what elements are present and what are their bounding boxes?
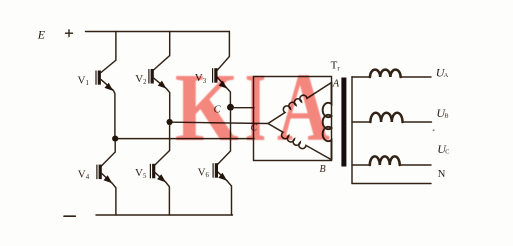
delta winding side C-B with coil bbox=[268, 124, 331, 160]
svg-text:A: A bbox=[332, 78, 340, 89]
positive terminal + bbox=[66, 30, 73, 37]
secondary bus wire bbox=[351, 77, 353, 184]
svg-text:B: B bbox=[444, 113, 448, 120]
positive DC rail wire bbox=[86, 31, 230, 33]
negative DC rail wire bbox=[96, 214, 233, 216]
label V3 bbox=[195, 72, 207, 85]
wire V6 emitter to negative rail bbox=[227, 181, 232, 215]
label V5 bbox=[135, 167, 147, 180]
wire rail to V1 collector bbox=[101, 32, 116, 73]
transformer label Tr bbox=[331, 59, 341, 72]
transistor V5 bbox=[150, 164, 166, 182]
wire V5 emitter to negative rail bbox=[166, 182, 170, 215]
transformer core bbox=[341, 78, 346, 167]
node label C bbox=[214, 104, 222, 115]
secondary winding A coil bbox=[370, 70, 401, 77]
output label UA bbox=[436, 65, 449, 79]
source label E bbox=[37, 28, 46, 42]
svg-text:I: I bbox=[245, 54, 266, 161]
delta winding side A-C with coil bbox=[268, 83, 332, 124]
label V2 bbox=[135, 73, 147, 86]
svg-text:B: B bbox=[320, 164, 326, 175]
junction node leg2 bbox=[167, 119, 173, 125]
wire node leg2 to delta vertex C bbox=[173, 122, 268, 123]
vertex label B bbox=[320, 164, 326, 175]
secondary winding C coil bbox=[370, 156, 400, 165]
svg-text:A: A bbox=[444, 72, 449, 79]
wire node leg1 to V4 bbox=[102, 142, 116, 166]
svg-text:C: C bbox=[445, 149, 449, 156]
svg-text:N: N bbox=[438, 169, 446, 180]
negative terminal - bbox=[64, 215, 75, 217]
output label UB bbox=[436, 106, 448, 120]
vertex label A bbox=[332, 78, 340, 89]
transistor V4 bbox=[96, 165, 112, 184]
wire rail to V2 collector bbox=[154, 32, 170, 71]
wire rail to V3 collector bbox=[217, 32, 229, 71]
wire V1 emitter to node leg1 bbox=[113, 90, 115, 138]
secondary winding B coil bbox=[370, 113, 402, 122]
transistor V3 bbox=[212, 68, 227, 88]
transistor V2 bbox=[148, 69, 166, 89]
svg-text:A: A bbox=[277, 54, 330, 161]
wire V3 emitter to node C bbox=[227, 89, 230, 108]
secondary phase B wire bbox=[352, 121, 432, 123]
secondary phase C wire bbox=[352, 164, 431, 166]
wire V2 emitter to node leg2 bbox=[166, 89, 169, 122]
neutral wire N bbox=[352, 183, 431, 185]
wire V4 emitter to negative rail bbox=[112, 183, 116, 215]
neutral label N bbox=[438, 169, 446, 180]
wire node leg2 to V5 bbox=[155, 125, 170, 165]
wire node C to V6 bbox=[218, 111, 231, 164]
transistor V1 bbox=[95, 71, 113, 91]
label V1 bbox=[78, 74, 89, 87]
transformer primary enclosure box bbox=[254, 77, 332, 161]
junction node C bbox=[227, 104, 234, 111]
label V4 bbox=[78, 168, 90, 181]
transistor V6 bbox=[213, 163, 228, 181]
output label UC bbox=[437, 142, 449, 156]
secondary phase A wire bbox=[352, 76, 431, 78]
wire node C to transformer box bbox=[234, 107, 254, 109]
svg-text:E: E bbox=[37, 28, 46, 42]
junction node leg1 bbox=[112, 136, 118, 142]
svg-text:K: K bbox=[175, 54, 239, 161]
stray dot mark bbox=[433, 129, 435, 131]
label V6 bbox=[198, 166, 210, 179]
vertex label C inside box bbox=[251, 123, 258, 133]
delta winding side A-B with coil bbox=[323, 83, 332, 160]
wire node leg1 to transformer box bbox=[118, 138, 254, 140]
watermark KIA bbox=[175, 54, 330, 161]
